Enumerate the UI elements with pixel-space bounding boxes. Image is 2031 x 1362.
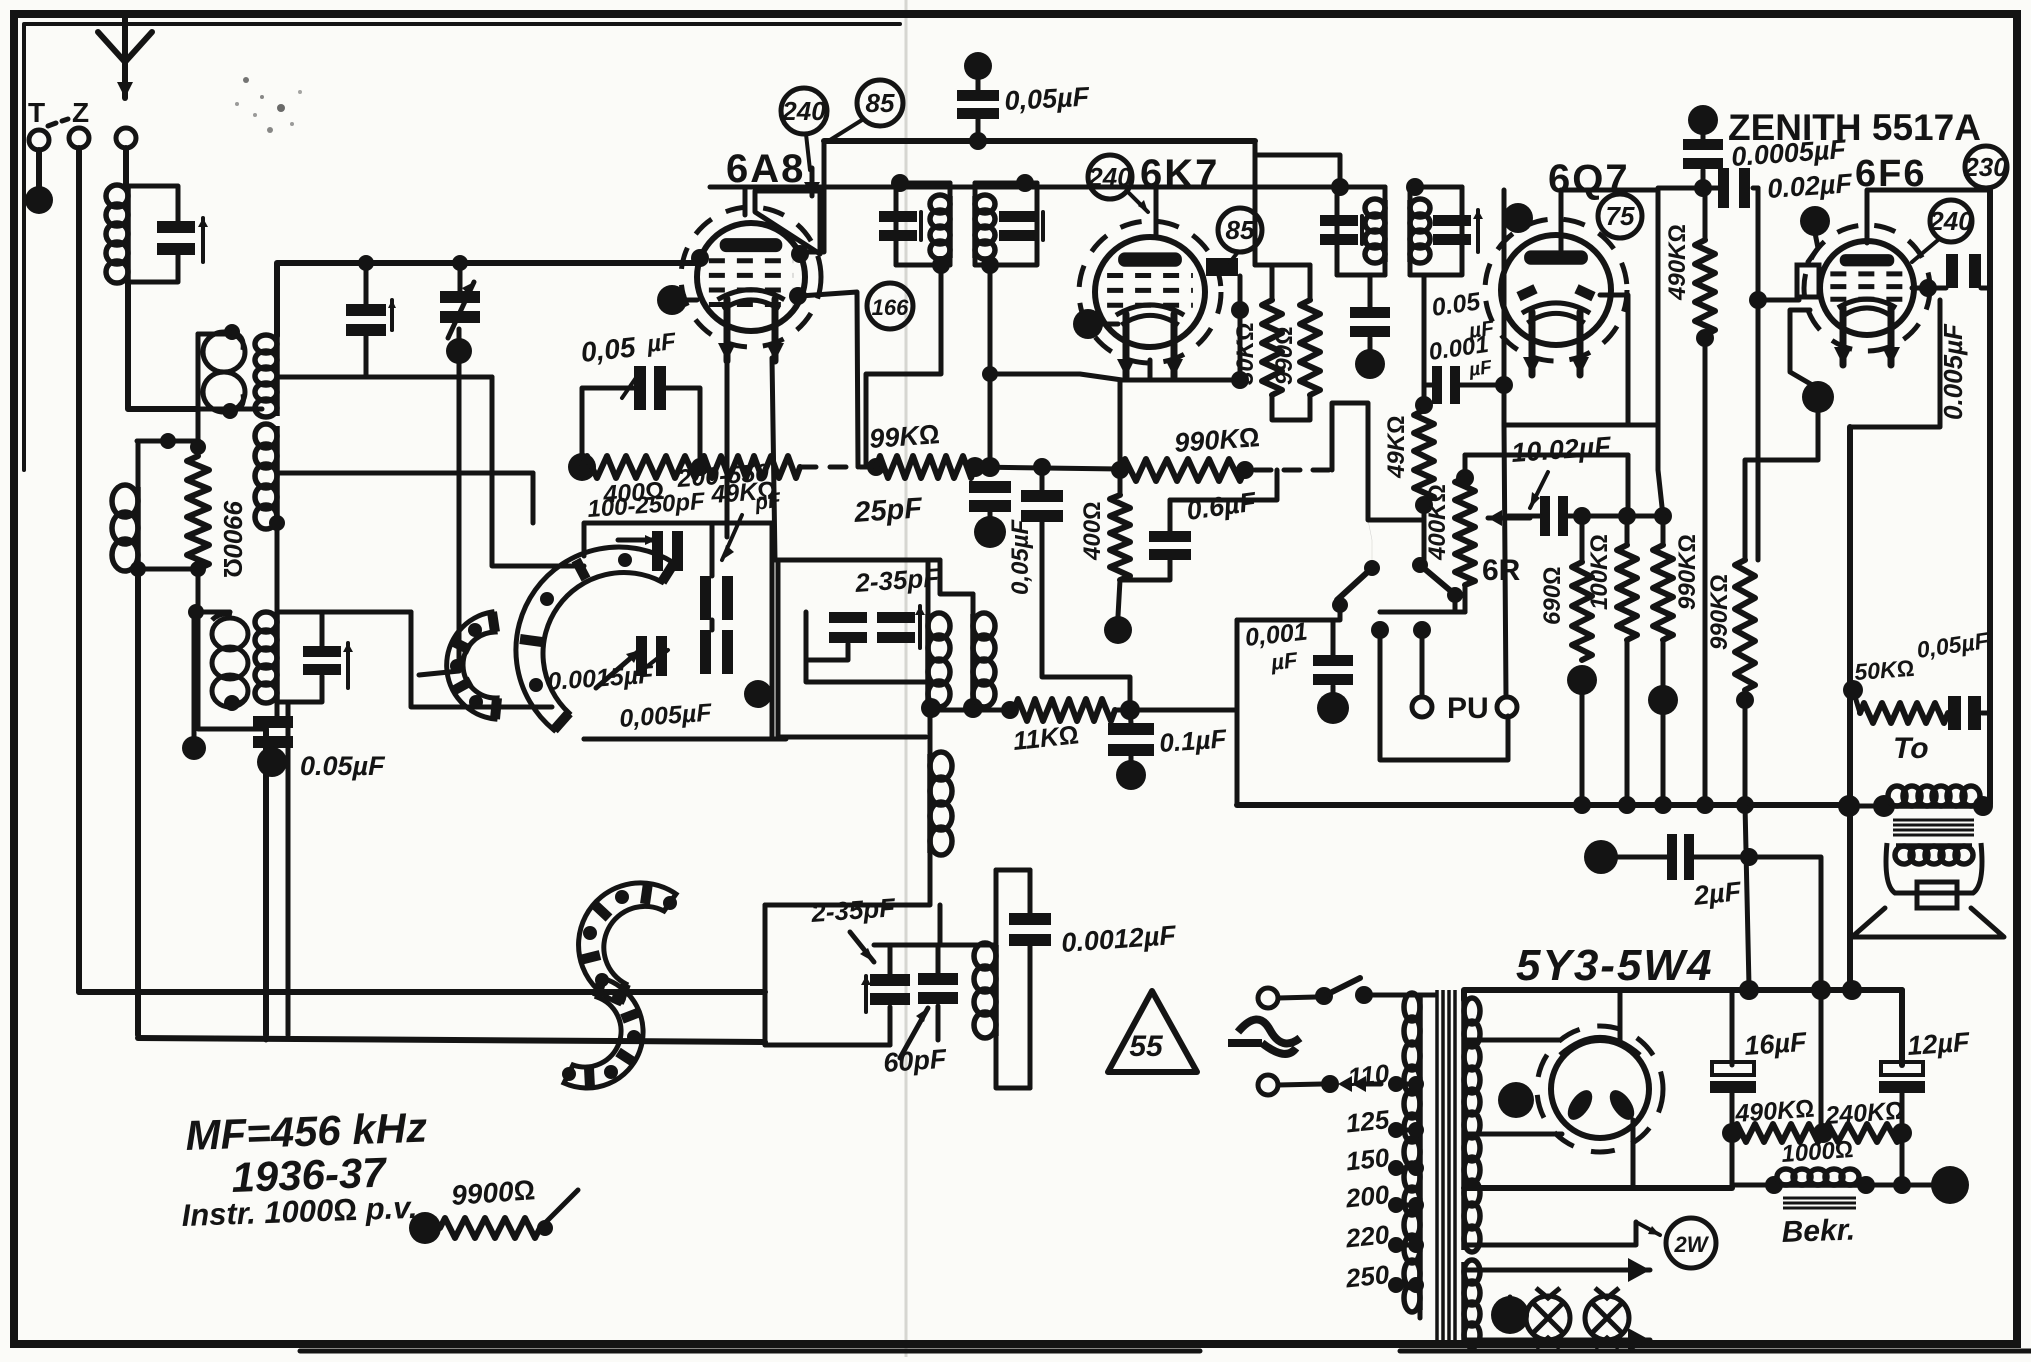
- node 6K7 box2: [1231, 371, 1249, 389]
- mains switch lever: [1324, 978, 1360, 996]
- if1a coil: [947, 196, 953, 258]
- svg-text:166: 166: [872, 295, 909, 320]
- pot top lead: [1463, 455, 1468, 475]
- cap C2 small arrow: [390, 300, 394, 330]
- power secondary fil: [1461, 1262, 1467, 1345]
- 25pF stub: [988, 512, 993, 520]
- resistor 490K ps: [1732, 1124, 1823, 1142]
- 6Q7 grid stub: [1559, 190, 1564, 250]
- switch prong 1: [1380, 630, 1508, 760]
- 990K q7 top: [1661, 516, 1666, 545]
- rf sec B down: [275, 523, 280, 612]
- rf secondary coil B: [274, 426, 280, 527]
- fil top wire: [1464, 1268, 1650, 1273]
- rf primary left wire: [196, 334, 201, 409]
- node 990K right: [1236, 461, 1254, 479]
- tube U3 6Q7: [1485, 219, 1627, 361]
- cap C2 stem top: [364, 263, 369, 304]
- svg-text:60pF: 60pF: [882, 1044, 948, 1078]
- To primary: [1890, 803, 1978, 809]
- zenith cap stem: [1701, 132, 1706, 139]
- voltage 230: [1965, 146, 2007, 188]
- 2uF lead: [1615, 855, 1667, 860]
- resistor 400 ohm: [582, 456, 700, 478]
- long wire y1035: [138, 1038, 765, 1042]
- node 690 top: [1573, 507, 1591, 525]
- 490K stub top: [1703, 188, 1708, 240]
- node L2 bottom: [963, 698, 983, 718]
- tap dot b 220: [1408, 1237, 1424, 1253]
- To wire: [1849, 804, 1884, 809]
- sec top rail: [1464, 990, 1902, 1000]
- capacitor 25pF: [969, 481, 1011, 493]
- 6A8 shield trapezoid: [755, 191, 820, 254]
- 11K right wire: [1115, 708, 1237, 713]
- svg-text:12µF: 12µF: [1906, 1027, 1972, 1061]
- svg-text:6R: 6R: [1482, 554, 1521, 587]
- trimmer C3 bottom stub: [457, 329, 462, 377]
- if2a top wire: [1337, 185, 1385, 190]
- coupling leads2: [1568, 455, 1628, 516]
- switch lever 1: [1337, 568, 1372, 600]
- 6A8 heater drop: [772, 358, 775, 560]
- 6K7 box right: [1238, 276, 1243, 380]
- capacitor 12uF: [1881, 1062, 1923, 1075]
- dashes between T and Z: [48, 123, 56, 126]
- node 6F6 grid: [1749, 291, 1767, 309]
- tube U1 6A8: [681, 207, 821, 347]
- trimmer C1: [157, 221, 195, 233]
- pilot lamp 1: [1526, 1296, 1570, 1340]
- svg-text:400KΩ: 400KΩ: [1424, 484, 1451, 561]
- svg-text:220: 220: [1343, 1219, 1391, 1254]
- 50K lead: [1853, 690, 1860, 713]
- terminal B out: [1931, 1166, 1969, 1204]
- svg-text:85: 85: [866, 88, 895, 118]
- node To left: [1838, 795, 1860, 817]
- primary top: [1420, 993, 1435, 998]
- 9900 bl link: [540, 1190, 578, 1228]
- osc coil L3: [927, 754, 933, 853]
- capacitor 60pF: [918, 973, 958, 985]
- trimmer 2-35pF low: [870, 974, 910, 986]
- t3 secondary coil: [274, 613, 280, 702]
- svg-text:49KΩ: 49KΩ: [709, 477, 777, 510]
- 0.1 stub: [1130, 710, 1131, 723]
- svg-text:100KΩ: 100KΩ: [1586, 534, 1613, 610]
- svg-text:250: 250: [1343, 1259, 1391, 1294]
- 490 bottom: [1730, 1133, 1735, 1185]
- 2uF dot: [1584, 840, 1618, 874]
- capacitor 0.005uF: [1946, 254, 1958, 288]
- arrow 0.0015: [640, 650, 668, 672]
- node 6A8 left: [691, 249, 709, 267]
- potentiometer 400K: [1455, 478, 1475, 585]
- coupling cap: [1350, 307, 1390, 318]
- switch prong 2: [1420, 630, 1425, 696]
- t3 cap top stem: [320, 612, 325, 646]
- choke core: [1783, 1197, 1856, 1200]
- capacitor 0.02uF: [1718, 168, 1729, 208]
- arrow 10.02: [1530, 472, 1548, 508]
- paper specks: [243, 77, 249, 83]
- tube U5 rectifier: [1551, 1040, 1649, 1138]
- antenna coil L1: [125, 186, 131, 282]
- sec tap 1040: [1464, 1038, 1560, 1043]
- osc L1 top: [926, 560, 931, 614]
- rail dot 1821: [1811, 980, 1831, 1000]
- if1b coil bottom: [973, 258, 978, 265]
- pot top wire: [1465, 453, 1628, 458]
- svg-text:PU: PU: [1447, 692, 1489, 725]
- padder arrow left: [618, 538, 656, 543]
- 6Q7 diode right link: [1600, 295, 1628, 425]
- chain link wire: [1568, 514, 1663, 519]
- 0.001 to box: [1460, 383, 1504, 388]
- node 990K left: [1111, 461, 1129, 479]
- voltage 240 at 6A8: [781, 88, 827, 134]
- vert 492: [492, 377, 584, 566]
- padder bottom wire: [584, 737, 786, 742]
- pilot lamp 2: [1585, 1296, 1629, 1340]
- tap dot a 150: [1388, 1160, 1404, 1176]
- 6F6 gridcap hook: [1808, 233, 1818, 262]
- 990K right dashes: [1255, 468, 1332, 473]
- low trim mark: [864, 976, 868, 1012]
- trimmer C3: [440, 291, 480, 303]
- 6F6 plate top: [1867, 190, 1990, 243]
- mid vert 778: [778, 560, 926, 737]
- choke left dot: [1765, 1176, 1783, 1194]
- capacitor 0.05uF ground: [253, 716, 293, 728]
- t3 tuning cap C4: [303, 646, 341, 657]
- tap dot a 220: [1388, 1237, 1404, 1253]
- mains lead 1: [1278, 997, 1316, 998]
- svg-text:99KΩ: 99KΩ: [868, 419, 940, 454]
- node left coil bottom: [130, 561, 146, 577]
- switch box left: [1235, 620, 1240, 805]
- node L1 bottom: [921, 698, 941, 718]
- switch contact 1: [1332, 597, 1348, 613]
- 49K to switch: [1420, 560, 1424, 565]
- tap dot b 110: [1408, 1076, 1424, 1092]
- 6A8 grid cap wire: [743, 187, 748, 215]
- 0.001 branch wire: [1424, 383, 1432, 388]
- 0.05uF ground dot: [257, 747, 287, 777]
- node 11K right: [1120, 700, 1140, 720]
- node To right: [1973, 796, 1993, 816]
- 0.1 ground dot: [1116, 760, 1146, 790]
- ant coil down wire: [128, 282, 198, 409]
- 85 to screen: [1230, 252, 1238, 262]
- svg-text:490KΩ: 490KΩ: [1664, 224, 1691, 301]
- tap wire 220: [1396, 1243, 1420, 1248]
- svg-text:µF: µF: [1269, 647, 1299, 675]
- 49K down: [1422, 505, 1427, 560]
- 25pF ground dot: [974, 516, 1006, 548]
- bus dot 1582: [1573, 796, 1591, 814]
- speaker frame: [1886, 843, 1982, 893]
- switch contact 2: [1447, 587, 1463, 603]
- rect plate wire: [1618, 990, 1623, 1042]
- tap wire 250: [1396, 1283, 1420, 1288]
- power primary winding: [1417, 995, 1423, 1310]
- osc L2 top: [971, 594, 976, 614]
- node To in: [1873, 795, 1895, 817]
- low trim top2: [936, 945, 941, 973]
- if1a right vert: [948, 183, 953, 196]
- bus dot 1705: [1696, 796, 1714, 814]
- osc coil L2: [970, 614, 976, 706]
- osc primary left lead: [196, 334, 201, 456]
- svg-text:200: 200: [1343, 1179, 1391, 1214]
- mid box top: [778, 558, 940, 563]
- node 400 left: [568, 453, 596, 481]
- capacitor 0.0005uF: [1683, 139, 1723, 150]
- 0.05 stub: [270, 748, 275, 756]
- rf primary bottom wire: [198, 407, 262, 412]
- left coil bottom join: [138, 567, 198, 572]
- band switch rotor B: [447, 612, 497, 719]
- if2b cap: [1433, 215, 1471, 226]
- svg-text:2µF: 2µF: [1691, 876, 1743, 911]
- node 12uF bus: [1893, 1176, 1911, 1194]
- terminal Z: [69, 128, 89, 148]
- primary bottom: [1418, 1310, 1423, 1318]
- 11K left lead: [928, 708, 1014, 713]
- avc up: [1332, 403, 1424, 520]
- node 990K out bottom: [1736, 691, 1754, 709]
- 6F6 grid return: [1756, 300, 1761, 560]
- tube U1 6A8 cathode arrow left: [724, 299, 731, 361]
- choke right dot: [1857, 1176, 1875, 1194]
- svg-text:25pF: 25pF: [852, 492, 924, 529]
- if1a top wire: [896, 181, 950, 186]
- 0.02 wire: [1658, 186, 1718, 191]
- 6F6 grid line: [1756, 188, 1761, 300]
- tap dot a 200: [1388, 1197, 1404, 1213]
- t3 left lead: [192, 612, 197, 748]
- L3 drop to row: [938, 905, 943, 945]
- mid low left vert: [763, 905, 768, 1045]
- speaker voice coil: [1917, 882, 1957, 908]
- node pot top: [1456, 469, 1474, 487]
- svg-text:0,05: 0,05: [579, 331, 637, 368]
- svg-text:0,05µF: 0,05µF: [1007, 518, 1034, 595]
- 85 arrow line: [830, 120, 862, 140]
- if2 top link: [1156, 185, 1337, 190]
- capacitor 2uF: [1667, 834, 1677, 880]
- box bottom to chain: [1658, 425, 1663, 516]
- 6A8 screen bus corner: [806, 141, 824, 252]
- if1a left wire: [894, 183, 899, 265]
- sec tap 1245: [1464, 1222, 1636, 1245]
- power core: [1435, 990, 1439, 1345]
- node rf prim top: [224, 324, 240, 340]
- tube U4 6F6: [1804, 225, 1930, 351]
- svg-text:990Ω: 990Ω: [1271, 327, 1298, 385]
- 0.05 series down: [1042, 522, 1130, 710]
- antenna symbol: [98, 32, 125, 62]
- svg-text:230: 230: [1963, 152, 2008, 182]
- padder cap 200-550: [700, 630, 711, 674]
- 0.05 series line: [1040, 467, 1045, 490]
- node 6A8 cathode gnd: [657, 285, 687, 315]
- 990Kq7 to bus: [1661, 710, 1666, 805]
- L1 bottom down: [928, 706, 933, 754]
- resistor 30K: [1262, 300, 1282, 395]
- svg-text:1000Ω: 1000Ω: [1781, 1136, 1855, 1168]
- fil arrow bottom: [1628, 1328, 1650, 1352]
- rf primary top wire: [198, 332, 230, 337]
- node 99K left: [867, 458, 885, 476]
- mains dot 1: [1315, 987, 1333, 1005]
- 6A8 cathode drop: [725, 358, 730, 537]
- 6F6 grid wire: [1758, 298, 1799, 303]
- 990 top: [1308, 265, 1313, 300]
- L2 bottom down: [971, 706, 976, 710]
- trimmer C1 arrow: [201, 218, 205, 262]
- svg-text:16µF: 16µF: [1743, 1027, 1809, 1061]
- mains lead 2: [1278, 1084, 1322, 1085]
- 400k down: [1118, 580, 1120, 616]
- low box top wire: [874, 943, 996, 948]
- rf secondary coil A: [274, 336, 280, 416]
- To core: [1893, 819, 1974, 822]
- node 490 left: [1722, 1123, 1742, 1143]
- antenna terminal to coil: [123, 148, 129, 186]
- 0.05 cap stem: [976, 119, 981, 141]
- node 490K bottom: [1696, 329, 1714, 347]
- svg-text:150: 150: [1344, 1142, 1391, 1176]
- svg-text:240: 240: [1087, 162, 1132, 192]
- switch box top: [1237, 618, 1333, 623]
- if2a tops: [1383, 187, 1388, 200]
- 990K2 down chain: [1745, 805, 1749, 986]
- node t3 prim bottom: [224, 695, 240, 711]
- tube U2 6K7 heater arrow right: [1171, 314, 1178, 377]
- 0.05 out lead: [1982, 711, 1990, 716]
- svg-text:5Y3-5W4: 5Y3-5W4: [1516, 941, 1713, 990]
- node 400/49K: [691, 458, 709, 476]
- node 990K q7 top: [1654, 507, 1672, 525]
- if1b right wire: [975, 183, 1037, 265]
- padder wires: [710, 523, 715, 576]
- mains arrows: [1338, 1076, 1352, 1092]
- if2b tops: [1408, 187, 1413, 200]
- mid vert 806: [806, 612, 926, 682]
- T end dot: [25, 186, 53, 214]
- osc L4 bottom: [996, 1036, 1030, 1088]
- fil arrow top: [1628, 1258, 1650, 1282]
- osc coil L1: [925, 614, 931, 706]
- svg-text:6A8: 6A8: [726, 147, 805, 191]
- t3 sec drop: [411, 612, 552, 707]
- 9900 bl dot2: [537, 1220, 553, 1236]
- padder node dot: [744, 680, 772, 708]
- svg-text:990KΩ: 990KΩ: [1173, 422, 1260, 458]
- 2uF lead2: [1694, 855, 1749, 860]
- node 9900 bottom: [190, 561, 206, 577]
- svg-text:µF: µF: [645, 328, 678, 358]
- resistor 9900 ohm: [187, 456, 209, 569]
- tap wire 125: [1396, 1128, 1420, 1133]
- if1b coil: [972, 196, 978, 258]
- switch pole 2: [1412, 557, 1428, 573]
- node 50K: [1843, 680, 1863, 700]
- 0.05 row left lead: [582, 388, 634, 467]
- bus dot 1663: [1654, 796, 1672, 814]
- tap dot a 250: [1388, 1277, 1404, 1293]
- svg-text:49KΩ: 49KΩ: [1383, 416, 1410, 479]
- node if1a bottom: [932, 256, 950, 274]
- node 11K left: [1001, 701, 1019, 719]
- PU terminal 2: [1497, 697, 1517, 717]
- cap C2 stem bottom: [364, 336, 369, 377]
- voltage 85 at 6A8: [857, 80, 903, 126]
- sw cap stem: [1331, 620, 1336, 655]
- node 0.02 left: [1694, 179, 1712, 197]
- 6Q7 box corner to PU: [1504, 425, 1506, 697]
- dash 2: [62, 119, 68, 121]
- rf sec tap wire: [277, 375, 492, 380]
- 0.0012 stem2: [1028, 946, 1033, 1088]
- 6K7 screen tab: [1206, 258, 1238, 276]
- 9900 chain down: [198, 569, 266, 729]
- 990K out to bus: [1743, 690, 1748, 805]
- resistor 990K: [1120, 459, 1245, 481]
- 100K top: [1625, 516, 1630, 545]
- tap dot b 150: [1408, 1160, 1424, 1176]
- node C3 bottom dot: [446, 338, 472, 364]
- cap C2 arrow mark: [390, 302, 394, 330]
- switch lever 2: [1420, 565, 1452, 592]
- Z long vertical wire: [76, 148, 82, 992]
- resistor 240K ps: [1823, 1124, 1902, 1142]
- left coil top stub: [136, 441, 141, 487]
- node C3 top: [452, 255, 468, 271]
- 0.05 g arrow: [622, 372, 640, 398]
- 0.6 bottom: [1120, 560, 1170, 580]
- t3 cap arrow: [346, 643, 350, 688]
- 240 6F6 arrow: [1912, 240, 1938, 262]
- 6F6 cathode dot: [1802, 381, 1834, 413]
- down to bus: [263, 729, 269, 1035]
- 6F6 out cap lead2: [1981, 286, 1990, 291]
- resistor 990K out: [1735, 560, 1755, 690]
- capacitor 0.0012uF: [1009, 913, 1051, 925]
- rf primary coil: [203, 332, 245, 372]
- ant coil bottom wire: [128, 253, 178, 282]
- tube U4 6F6 heater arrow right: [1888, 307, 1895, 365]
- svg-text:2W: 2W: [1674, 1232, 1710, 1257]
- svg-text:0.05µF: 0.05µF: [300, 751, 386, 781]
- resistor 49K diode: [1414, 410, 1434, 502]
- node 6K7 k gnd: [1073, 309, 1103, 339]
- 990K q7 bottom: [1661, 640, 1666, 686]
- svg-text:T: T: [28, 97, 45, 128]
- mains lead 2b: [1366, 1082, 1381, 1087]
- svg-text:0,05µF: 0,05µF: [1004, 82, 1092, 116]
- low trim top: [888, 945, 893, 974]
- bus to screen res: [1253, 141, 1258, 265]
- 30K top: [1270, 265, 1275, 300]
- resistor 100K: [1617, 545, 1637, 640]
- voltage 166: [867, 283, 913, 329]
- svg-text:75: 75: [1606, 201, 1635, 231]
- if2b foot: [1408, 262, 1413, 275]
- switch prong dot 2: [1413, 621, 1431, 639]
